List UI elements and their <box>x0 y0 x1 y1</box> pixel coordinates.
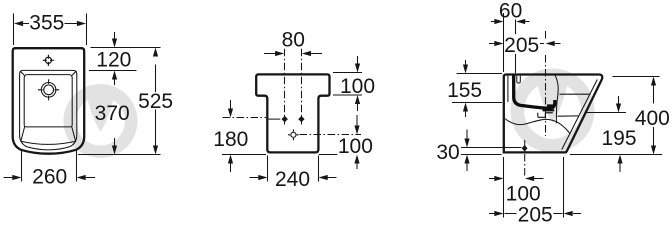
fixing hole diamond right <box>298 116 304 122</box>
svg-text:195: 195 <box>601 127 636 150</box>
svg-text:100: 100 <box>338 135 373 158</box>
trap detail <box>538 113 546 118</box>
dimension 205 top <box>489 43 561 45</box>
rear view outline <box>256 74 329 152</box>
base fixing hole <box>522 140 528 176</box>
dimension 30 <box>461 130 522 172</box>
dimension 260 <box>4 151 96 182</box>
tap hole section <box>517 76 521 84</box>
centerline hole left <box>284 49 286 125</box>
bowl opening <box>24 75 72 127</box>
dimension 240 <box>250 156 337 182</box>
centerline hole right <box>301 49 303 125</box>
dimension 100 lower right <box>319 115 357 169</box>
svg-text:205: 205 <box>518 204 553 223</box>
under-bowl curve <box>505 119 570 134</box>
rim corner tick right <box>72 71 76 75</box>
fixing holes line <box>268 118 280 120</box>
svg-text:30: 30 <box>436 141 459 164</box>
front slope band left edge <box>21 127 25 141</box>
drain outlet marker <box>288 129 299 140</box>
svg-text:80: 80 <box>282 28 305 51</box>
watermark ring right <box>511 69 595 153</box>
dimension 120 <box>89 32 161 71</box>
dimension 80 <box>275 51 311 56</box>
drain centerline horizontal <box>300 134 362 136</box>
svg-text:370: 370 <box>95 102 130 125</box>
bowl section thick profile <box>514 75 555 113</box>
inner rim <box>20 70 77 149</box>
dimension 400 <box>570 77 662 155</box>
dimension 155 <box>452 60 502 117</box>
dimension 355 <box>14 14 87 46</box>
svg-text:100: 100 <box>506 183 541 206</box>
side view outline <box>504 75 602 153</box>
dimension 205 bottom <box>489 157 581 218</box>
dimension 195 <box>585 96 626 172</box>
fixing hole diamond left <box>282 116 288 122</box>
bowl front inner edge <box>555 75 558 124</box>
svg-text:120: 120 <box>96 49 131 72</box>
dimension 100 side bottom <box>489 157 544 218</box>
rim top surface line <box>560 93 590 95</box>
dimension 60 <box>491 13 530 73</box>
svg-text:205: 205 <box>504 34 539 57</box>
svg-text:240: 240 <box>275 168 310 191</box>
tap hole <box>45 57 51 63</box>
svg-text:525: 525 <box>138 90 173 113</box>
front slope band bottom curve <box>21 141 76 144</box>
rim corner tick left <box>20 71 24 75</box>
svg-text:400: 400 <box>635 107 670 130</box>
outer body outline <box>13 48 85 154</box>
svg-text:180: 180 <box>213 128 248 151</box>
watermark ring left <box>64 84 138 158</box>
dimension 525 <box>155 65 157 147</box>
dimension 180 <box>222 100 266 172</box>
front slope band right edge <box>72 127 76 141</box>
svg-text:100: 100 <box>340 75 375 98</box>
slope inner line <box>562 80 598 150</box>
svg-text:60: 60 <box>499 0 522 22</box>
rim back inner line <box>507 76 509 102</box>
dimension 370 <box>78 80 161 155</box>
svg-text:355: 355 <box>29 12 64 35</box>
under-rim line <box>557 115 579 117</box>
dimension 100 upper right <box>333 56 362 111</box>
svg-text:260: 260 <box>32 166 67 189</box>
svg-text:155: 155 <box>447 79 482 102</box>
bowl centerline <box>545 31 547 136</box>
drain circles <box>41 83 56 98</box>
